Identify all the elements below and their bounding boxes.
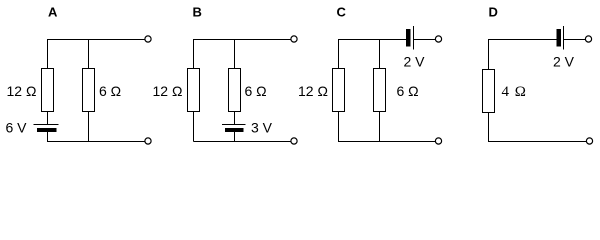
wire branch A1 top	[47, 39, 49, 69]
wire branch A2 bottom	[88, 112, 90, 142]
battery 6V A plate thick	[37, 128, 57, 132]
terminal A bottom	[145, 138, 151, 144]
svg-text:6 V: 6 V	[6, 120, 28, 136]
svg-text:6 Ω: 6 Ω	[397, 83, 419, 99]
wire bottom rail A	[47, 141, 145, 143]
wire A1 resistor to battery	[47, 112, 49, 125]
terminal B top	[291, 36, 297, 42]
resistor 6 ohm C	[374, 69, 386, 112]
svg-text:2 V: 2 V	[553, 54, 575, 70]
wire branch C2 top	[379, 39, 381, 69]
wire branch C1 bottom	[338, 112, 340, 142]
wire branch B2 top	[234, 39, 236, 69]
wire B2 battery to bottom	[234, 132, 236, 142]
svg-text:6 Ω: 6 Ω	[99, 83, 121, 99]
svg-text:3 V: 3 V	[251, 120, 273, 136]
resistor 6 ohm A	[83, 69, 95, 112]
svg-text:4 Ω: 4 Ω	[502, 84, 527, 100]
wire branch D bottom	[488, 113, 490, 142]
wire bottom rail C	[338, 141, 436, 143]
battery 2V D plate long	[563, 26, 565, 50]
wire C battery to terminal	[414, 39, 436, 41]
battery 2V C plate thick	[406, 29, 411, 47]
terminal C top	[435, 36, 441, 42]
resistor 4 ohm D	[483, 70, 495, 113]
terminal A top	[145, 36, 151, 42]
wire branch B1 top	[193, 39, 195, 69]
wire top rail B	[194, 39, 291, 41]
svg-text:12 Ω: 12 Ω	[7, 83, 37, 99]
wire branch C2 bottom	[379, 112, 381, 142]
wire branch B1 bottom	[193, 112, 195, 142]
terminal D bottom	[586, 138, 592, 144]
resistor 12 ohm C	[333, 69, 345, 112]
svg-text:2 V: 2 V	[404, 54, 426, 70]
svg-text:6 Ω: 6 Ω	[245, 83, 267, 99]
wire branch C1 top	[338, 39, 340, 69]
battery 3V B plate long	[222, 124, 246, 126]
svg-text:D: D	[489, 5, 498, 20]
svg-text:12 Ω: 12 Ω	[153, 83, 183, 99]
wire top rail A	[47, 39, 145, 41]
terminal C bottom	[435, 138, 441, 144]
wire branch D top	[488, 39, 490, 70]
wire D battery to terminal	[564, 39, 586, 41]
resistor 12 ohm B	[188, 69, 200, 112]
wire branch A2 top	[88, 39, 90, 69]
terminal D top	[585, 36, 591, 42]
battery 6V A plate long	[34, 124, 59, 126]
svg-text:C: C	[337, 5, 347, 20]
wire bottom rail D	[488, 141, 586, 143]
wire B2 resistor to battery	[234, 112, 236, 125]
resistor 6 ohm B	[229, 69, 241, 112]
battery 2V C plate long	[413, 26, 415, 50]
wire top rail C	[338, 39, 406, 41]
svg-text:12 Ω: 12 Ω	[298, 83, 328, 99]
resistor 12 ohm A	[42, 69, 54, 112]
svg-text:A: A	[48, 5, 58, 20]
battery 2V D plate thick	[557, 29, 562, 47]
svg-text:B: B	[193, 5, 202, 20]
wire A1 battery to bottom	[47, 132, 49, 142]
terminal B bottom	[291, 138, 297, 144]
battery 3V B plate thick	[225, 128, 244, 132]
wire top rail D	[488, 39, 557, 41]
wire bottom rail B	[194, 141, 291, 143]
